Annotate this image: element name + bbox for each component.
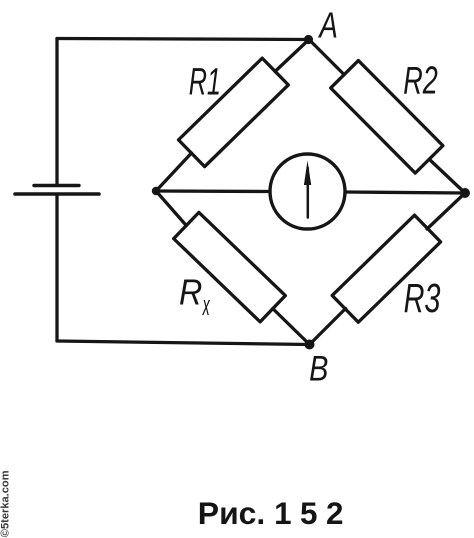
svg-text:R3: R3 bbox=[404, 275, 441, 321]
wire resistor R2 to right node bbox=[430, 160, 466, 194]
wire left node to resistor Rx bbox=[156, 191, 186, 226]
node A junction dot bbox=[304, 35, 313, 44]
svg-text:152: 152 bbox=[274, 496, 352, 531]
svg-text:B: B bbox=[309, 349, 328, 388]
resistor Rx body bbox=[174, 212, 286, 321]
wire left node to galvanometer bbox=[156, 189, 271, 193]
resistor R2 body bbox=[331, 60, 443, 173]
left node junction dot bbox=[152, 187, 160, 195]
wire right node to resistor R3 bbox=[427, 193, 465, 229]
wire resistor R3 to node B bbox=[310, 309, 346, 345]
right node junction dot bbox=[460, 188, 470, 198]
wire node A to resistor R2 bbox=[309, 40, 344, 75]
svg-text:R1: R1 bbox=[189, 60, 221, 102]
svg-text:R: R bbox=[179, 273, 202, 313]
resistor R3 body bbox=[332, 215, 440, 322]
battery GB1 long plate (negative terminal) bbox=[15, 192, 99, 196]
svg-text:©5terka.com: ©5terka.com bbox=[0, 470, 12, 537]
node B junction dot bbox=[305, 340, 315, 350]
resistor R1 body bbox=[178, 58, 288, 166]
wire left vertical lower (battery bottom lead) bbox=[55, 195, 58, 342]
svg-text:R2: R2 bbox=[403, 60, 438, 103]
wire top horizontal from battery to node A bbox=[57, 39, 309, 40]
wire galvanometer to right node bbox=[345, 192, 466, 193]
svg-text:Рис.: Рис. bbox=[198, 495, 265, 531]
battery GB1 short plate (positive terminal) bbox=[34, 184, 79, 187]
wire resistor Rx to node B bbox=[273, 309, 310, 345]
wire left vertical upper (battery top lead) bbox=[55, 39, 58, 185]
wire node A to resistor R1 bbox=[275, 40, 309, 72]
galvanometer needle shaft bbox=[307, 168, 310, 218]
svg-text:A: A bbox=[318, 5, 338, 45]
galvanometer needle arrowhead bbox=[304, 161, 311, 186]
galvanometer P1 body bbox=[270, 154, 345, 229]
svg-text:x: x bbox=[202, 290, 210, 322]
wire bottom horizontal from battery to node B bbox=[57, 341, 310, 345]
wire resistor R1 to left node bbox=[156, 153, 192, 191]
